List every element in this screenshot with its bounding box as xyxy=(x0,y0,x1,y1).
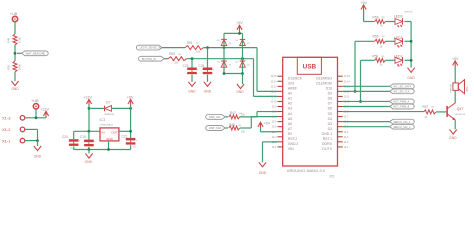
voltage regulator IC3 xyxy=(100,128,119,141)
node junction xyxy=(241,57,244,60)
wire xyxy=(130,145,132,149)
svg-text:J2-15: J2-15 xyxy=(271,75,278,78)
svg-text:10k: 10k xyxy=(238,125,241,127)
pin D12/MISO xyxy=(338,75,343,77)
wire GND rail xyxy=(74,149,131,151)
wire xyxy=(405,21,412,23)
svg-text:MBR0520: MBR0520 xyxy=(104,114,115,116)
wire xyxy=(37,141,39,146)
wire xyxy=(73,146,75,149)
label MOT_PWM_B xyxy=(390,104,415,109)
node junction xyxy=(223,72,226,75)
svg-text:X1-2: X1-2 xyxy=(2,127,11,132)
label BUTTON xyxy=(139,56,165,61)
svg-text:D10: D10 xyxy=(326,87,332,91)
pin D7 xyxy=(338,100,343,102)
svg-text:J2-13: J2-13 xyxy=(271,85,278,88)
node junction xyxy=(129,130,132,133)
svg-text:LED2: LED2 xyxy=(394,36,403,40)
wire xyxy=(88,150,90,154)
pin A1 xyxy=(278,95,283,97)
wire xyxy=(343,106,390,108)
resistor R57 xyxy=(424,110,436,114)
svg-text:J2-5: J2-5 xyxy=(272,126,277,129)
svg-text:WS_LED_CLK: WS_LED_CLK xyxy=(393,90,410,93)
label LIGHT_SENSE xyxy=(136,45,162,50)
pin 5V xyxy=(278,131,283,133)
node junction xyxy=(191,57,194,60)
resistor R55 xyxy=(375,39,386,43)
svg-text:220: 220 xyxy=(382,17,385,19)
LED2 xyxy=(395,38,403,44)
node junction xyxy=(410,40,413,43)
svg-text:D12/MISO: D12/MISO xyxy=(316,76,332,80)
svg-text:R48: R48 xyxy=(229,123,235,127)
pin A5 xyxy=(278,116,283,118)
svg-text:+5V: +5V xyxy=(360,1,367,5)
ground xyxy=(259,162,266,167)
wire xyxy=(225,116,228,118)
diode D3 xyxy=(221,40,227,46)
svg-text:D0/RX: D0/RX xyxy=(322,142,333,146)
ground xyxy=(85,154,92,159)
pin A0 xyxy=(278,90,283,92)
wire xyxy=(207,48,209,68)
svg-text:A5: A5 xyxy=(288,117,292,121)
connector X1-3 xyxy=(20,116,25,121)
svg-text:R49: R49 xyxy=(7,37,11,42)
wire xyxy=(187,58,254,60)
svg-text:10k: 10k xyxy=(196,43,199,45)
svg-text:10k: 10k xyxy=(178,54,181,56)
label WS_LED_CLK xyxy=(390,89,415,94)
wire xyxy=(260,128,262,132)
label SERVO_SIG_2 xyxy=(390,124,415,129)
node VBAT junction xyxy=(14,52,17,55)
svg-text:10u: 10u xyxy=(133,147,136,149)
wire xyxy=(405,59,412,61)
svg-text:J2-11: J2-11 xyxy=(271,95,277,98)
resistor R49 xyxy=(13,34,17,45)
svg-text:DISP_SDA: DISP_SDA xyxy=(209,127,222,130)
wire xyxy=(14,72,16,81)
resistor R47 xyxy=(229,115,240,119)
label VBAT_MEASURE xyxy=(22,51,49,56)
diode D4 xyxy=(221,61,227,67)
label I2C_SCL xyxy=(206,115,226,120)
node junction xyxy=(238,32,241,35)
wire xyxy=(108,141,110,150)
wire xyxy=(25,128,38,130)
wire xyxy=(37,129,39,140)
svg-text:VIN: VIN xyxy=(288,147,294,151)
svg-text:RST.1: RST.1 xyxy=(323,137,332,141)
svg-text:X2: X2 xyxy=(329,174,335,179)
svg-text:+UB: +UB xyxy=(10,12,18,16)
wire xyxy=(130,105,132,138)
svg-text:LED1: LED1 xyxy=(394,54,403,58)
svg-text:DISP_SCL: DISP_SCL xyxy=(209,116,222,119)
wire D9 to LED2 xyxy=(354,41,356,91)
svg-text:MOT_PWM_A: MOT_PWM_A xyxy=(393,101,409,104)
connector X1-1 xyxy=(20,138,25,143)
wire xyxy=(74,130,100,132)
svg-text:D11/MOSI: D11/MOSI xyxy=(316,81,332,85)
pin D9 xyxy=(338,90,343,92)
wire xyxy=(191,59,193,68)
supply +5V arrow xyxy=(237,25,242,30)
svg-text:BC337-40: BC337-40 xyxy=(455,114,466,116)
wire xyxy=(343,126,390,128)
svg-text:Q17: Q17 xyxy=(457,107,464,111)
wire xyxy=(405,40,412,42)
svg-text:A1: A1 xyxy=(288,97,292,101)
pin D8 xyxy=(338,95,343,97)
supply +5V arrow xyxy=(361,5,366,10)
svg-text:PKM22E: PKM22E xyxy=(450,83,452,92)
svg-text:D6: D6 xyxy=(328,107,332,111)
svg-text:4k7: 4k7 xyxy=(431,107,434,109)
diode D5 xyxy=(240,40,246,46)
svg-text:GND: GND xyxy=(34,154,42,158)
supply +UB circle xyxy=(33,104,38,109)
wire xyxy=(89,107,104,109)
ground xyxy=(450,130,457,135)
svg-text:GND: GND xyxy=(259,171,267,175)
wire xyxy=(343,85,390,87)
svg-text:D3: D3 xyxy=(328,122,332,126)
svg-text:+5V: +5V xyxy=(127,95,134,99)
connector X1-2 xyxy=(20,127,25,132)
svg-text:IN: IN xyxy=(102,130,105,134)
node junction xyxy=(88,148,91,151)
node junction xyxy=(354,90,357,93)
speaker SP1 xyxy=(453,83,458,91)
transistor Q17 xyxy=(446,106,448,117)
wire xyxy=(454,120,456,129)
svg-text:A0: A0 xyxy=(288,92,292,96)
svg-text:R58: R58 xyxy=(372,54,378,58)
wire xyxy=(242,74,244,85)
wire net BUTTON to A1 xyxy=(253,59,255,97)
LED3 xyxy=(395,19,403,25)
wire xyxy=(164,58,168,60)
svg-text:LM78L05ACZ: LM78L05ACZ xyxy=(100,123,114,126)
pin 3V3 xyxy=(278,80,283,82)
svg-text:VBAT_MEASURE: VBAT_MEASURE xyxy=(25,52,45,55)
pin A3 xyxy=(278,106,283,108)
pin A6 xyxy=(278,121,283,123)
pin GND.2 xyxy=(278,141,283,143)
svg-text:D13/SCK: D13/SCK xyxy=(288,76,303,80)
wire GND.2 to ground xyxy=(263,141,278,143)
svg-text:IC3: IC3 xyxy=(100,118,106,122)
svg-text:J2-3: J2-3 xyxy=(272,136,277,139)
svg-text:A6: A6 xyxy=(288,122,292,126)
svg-text:R47: R47 xyxy=(230,111,236,115)
ground xyxy=(408,68,415,73)
supply +5V arrow xyxy=(128,99,133,104)
wire xyxy=(14,22,16,34)
wire xyxy=(454,67,456,83)
svg-text:R52: R52 xyxy=(169,52,175,56)
svg-text:D7: D7 xyxy=(106,101,111,105)
svg-text:D2: D2 xyxy=(328,127,332,131)
pin GND.1 xyxy=(338,131,343,133)
node junction xyxy=(129,107,132,110)
node junction xyxy=(88,130,91,133)
wire D7 to LED1 xyxy=(360,60,362,101)
svg-text:J2-10: J2-10 xyxy=(271,100,278,103)
svg-text:J2-1: J2-1 xyxy=(272,146,277,149)
svg-text:GND.2: GND.2 xyxy=(288,142,298,146)
svg-text:100k: 100k xyxy=(18,64,22,70)
wire xyxy=(224,32,243,34)
capacitor C25 xyxy=(203,68,213,71)
svg-text:+5V: +5V xyxy=(236,21,243,25)
svg-text:A2: A2 xyxy=(288,102,292,106)
pin A4 xyxy=(278,111,283,113)
wire xyxy=(240,127,252,129)
supply +12V arrow xyxy=(86,99,91,104)
node junction xyxy=(88,107,91,110)
wire xyxy=(112,107,131,109)
node junction xyxy=(107,148,110,151)
resistor R48 xyxy=(229,126,240,130)
svg-text:R55: R55 xyxy=(373,34,379,38)
svg-text:A3: A3 xyxy=(288,107,292,111)
svg-text:J1-4: J1-4 xyxy=(344,131,349,134)
wire xyxy=(191,75,193,82)
pin D1/TX xyxy=(338,146,343,148)
wire xyxy=(240,116,257,118)
svg-text:D4: D4 xyxy=(328,117,332,121)
svg-text:470k: 470k xyxy=(18,37,22,43)
svg-text:GND: GND xyxy=(188,89,196,93)
pin A7 xyxy=(278,126,283,128)
wire xyxy=(88,147,90,150)
ground xyxy=(34,146,41,151)
svg-text:A4: A4 xyxy=(288,112,292,116)
svg-text:J1-2: J1-2 xyxy=(344,141,349,144)
supply +5V arrow xyxy=(258,122,263,127)
supply +12V arrow xyxy=(43,111,48,116)
svg-text:RST.2: RST.2 xyxy=(288,137,297,141)
svg-text:+UB: +UB xyxy=(31,99,39,103)
wire xyxy=(203,47,257,49)
wire xyxy=(385,59,395,61)
svg-text:C20: C20 xyxy=(62,135,68,139)
wire xyxy=(14,45,16,61)
wire xyxy=(385,40,395,42)
svg-text:GND: GND xyxy=(449,136,457,140)
svg-text:+12V: +12V xyxy=(40,107,49,111)
wire xyxy=(73,131,75,139)
wire xyxy=(242,33,244,73)
svg-text:MOT_PWM_B: MOT_PWM_B xyxy=(393,106,409,109)
node junction xyxy=(359,100,362,103)
svg-text:C21: C21 xyxy=(122,134,128,138)
svg-text:LIGHT_SENSE_IN: LIGHT_SENSE_IN xyxy=(140,47,161,50)
wire xyxy=(45,116,47,118)
svg-text:X1-3: X1-3 xyxy=(2,116,11,121)
LED1 xyxy=(395,57,403,63)
label WS_LED_DATA xyxy=(390,84,415,89)
ground xyxy=(204,82,211,87)
svg-text:R57: R57 xyxy=(422,105,428,109)
svg-text:LED3: LED3 xyxy=(394,15,403,19)
wire net LIGHT to A0 xyxy=(256,48,258,92)
svg-text:+5V: +5V xyxy=(452,57,459,61)
svg-text:R56: R56 xyxy=(373,15,379,19)
node junction xyxy=(241,72,244,75)
pin RST.1 xyxy=(338,136,343,138)
pin A2 xyxy=(278,100,283,102)
svg-text:D5: D5 xyxy=(328,112,332,116)
svg-text:SERVO_SIG_2: SERVO_SIG_2 xyxy=(393,126,411,129)
svg-text:WS_LED_DATA: WS_LED_DATA xyxy=(393,85,411,88)
capacitor C23 xyxy=(187,68,197,71)
pin VIN xyxy=(278,146,283,148)
svg-text:J2-9: J2-9 xyxy=(272,106,277,109)
svg-text:CHIPLED: CHIPLED xyxy=(404,12,413,14)
pin RST.2 xyxy=(278,136,283,138)
svg-text:J1-11: J1-11 xyxy=(344,95,350,98)
wire xyxy=(224,73,243,75)
svg-text:J2-14: J2-14 xyxy=(271,80,278,83)
svg-text:BUTTON_IN: BUTTON_IN xyxy=(142,58,156,61)
supply +UB symbol xyxy=(12,16,17,21)
wire xyxy=(343,90,390,92)
wire xyxy=(343,100,390,102)
diode D6 xyxy=(240,61,246,67)
wire xyxy=(223,33,225,73)
pin D0/RX xyxy=(338,141,343,143)
svg-text:AREF: AREF xyxy=(288,87,297,91)
svg-text:R51: R51 xyxy=(187,41,193,45)
wire LED common xyxy=(410,22,412,68)
label SERVO_SIG_1 xyxy=(390,119,415,124)
diode D7 xyxy=(105,106,112,112)
svg-text:SP1: SP1 xyxy=(465,86,469,92)
wire xyxy=(17,52,22,54)
svg-text:X1-1: X1-1 xyxy=(2,138,11,143)
ground xyxy=(188,82,195,87)
svg-text:A7: A7 xyxy=(288,127,292,131)
wire xyxy=(25,117,46,119)
wire xyxy=(361,59,375,61)
pin AREF xyxy=(278,85,283,87)
pin D5 xyxy=(338,111,343,113)
wire xyxy=(119,130,131,132)
svg-text:J2-12: J2-12 xyxy=(271,90,278,93)
wire D5 to R57 xyxy=(343,111,424,113)
pin D2 xyxy=(338,126,343,128)
wire xyxy=(385,21,395,23)
svg-text:3V3: 3V3 xyxy=(288,81,294,85)
svg-text:J2-6: J2-6 xyxy=(272,121,277,124)
svg-text:GND.1: GND.1 xyxy=(322,132,332,136)
svg-text:GND: GND xyxy=(236,90,244,94)
svg-text:USB: USB xyxy=(303,64,317,71)
svg-text:C25: C25 xyxy=(198,64,204,68)
svg-text:GND: GND xyxy=(11,87,19,91)
svg-text:D8: D8 xyxy=(328,97,332,101)
wire xyxy=(88,131,90,139)
svg-text:220: 220 xyxy=(382,36,385,38)
node junction xyxy=(410,59,413,62)
label I2C_SDA xyxy=(206,126,225,131)
svg-text:J1-3: J1-3 xyxy=(344,136,349,139)
resistor R56 xyxy=(375,20,386,24)
wire xyxy=(25,140,38,142)
pin D6 xyxy=(338,106,343,108)
wire xyxy=(363,11,365,22)
svg-text:C23: C23 xyxy=(183,64,189,68)
svg-text:J1-15: J1-15 xyxy=(344,75,351,78)
wire xyxy=(225,127,228,129)
svg-text:D7: D7 xyxy=(328,102,332,106)
wire xyxy=(343,121,390,123)
resistor R50 xyxy=(13,61,17,72)
svg-text:D9: D9 xyxy=(328,92,332,96)
svg-text:C19: C19 xyxy=(80,135,86,139)
svg-text:GND: GND xyxy=(407,76,415,80)
wire xyxy=(88,105,90,132)
wire xyxy=(207,75,209,82)
node junction xyxy=(223,46,226,49)
svg-text:220: 220 xyxy=(381,56,384,58)
svg-text:J1-14: J1-14 xyxy=(344,80,351,83)
wire xyxy=(162,47,185,49)
resistor R58 xyxy=(375,58,386,62)
svg-text:5V: 5V xyxy=(288,132,293,136)
USB connector box xyxy=(297,57,321,74)
ground xyxy=(11,81,18,86)
resistor R52 xyxy=(168,57,186,61)
svg-text:ARDUINO-NANO-3.0: ARDUINO-NANO-3.0 xyxy=(287,168,326,173)
pin D3 xyxy=(338,121,343,123)
wire xyxy=(239,31,241,34)
wire xyxy=(355,40,375,42)
pin D11/MOSI xyxy=(338,80,343,82)
node junction xyxy=(36,139,39,142)
label MOT_PWM_A xyxy=(390,99,415,104)
capacitor C20 xyxy=(69,139,79,142)
wire xyxy=(454,90,456,103)
svg-text:D1/TX: D1/TX xyxy=(322,147,332,151)
svg-text:J1-7: J1-7 xyxy=(344,116,349,119)
capacitor C19 xyxy=(84,140,94,143)
pin D13/SCK xyxy=(278,75,283,77)
svg-text:J1-1: J1-1 xyxy=(344,146,349,149)
pin D10 xyxy=(338,85,343,87)
svg-text:SERVO_SIG_1: SERVO_SIG_1 xyxy=(393,121,411,124)
ground xyxy=(237,84,244,89)
svg-text:R50: R50 xyxy=(7,64,11,69)
pin D4 xyxy=(338,116,343,118)
resistor R51 xyxy=(185,46,203,50)
svg-text:OUT: OUT xyxy=(111,130,118,134)
supply +5V arrow xyxy=(453,61,458,66)
svg-text:+12V: +12V xyxy=(83,95,92,99)
wire xyxy=(35,109,37,118)
IC X2 Arduino Nano body xyxy=(283,57,338,166)
node junction xyxy=(206,46,209,49)
capacitor C21 xyxy=(126,138,136,141)
svg-text:+5V: +5V xyxy=(264,122,271,126)
svg-text:GND: GND xyxy=(106,137,114,141)
